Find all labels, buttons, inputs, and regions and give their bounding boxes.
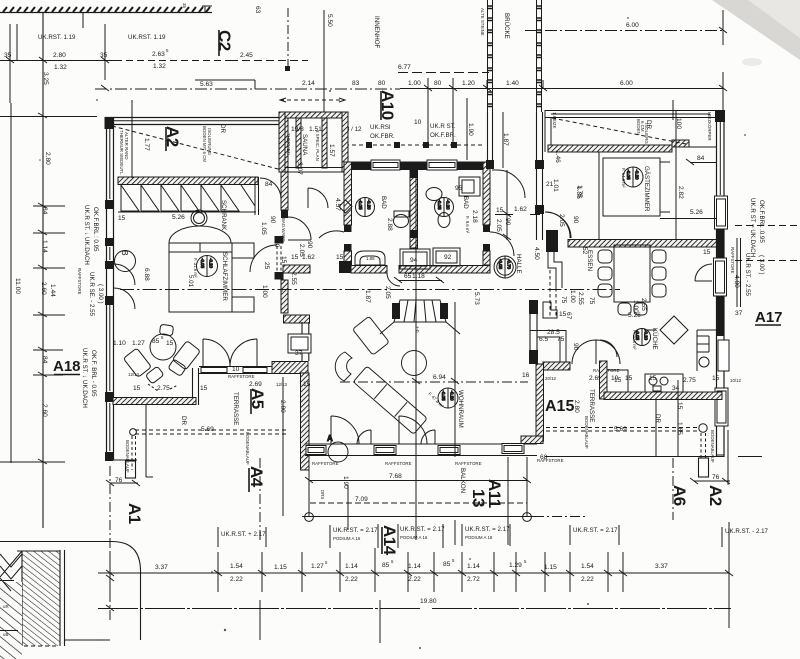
svg-text:13: 13	[469, 489, 488, 507]
svg-text:1.75: 1.75	[576, 185, 583, 198]
svg-text:5.69: 5.69	[614, 426, 627, 433]
svg-text:15: 15	[703, 249, 711, 256]
svg-text:76: 76	[115, 477, 123, 484]
svg-text:3.37: 3.37	[655, 563, 668, 570]
svg-text:84: 84	[41, 356, 48, 364]
svg-text:UK.R ST. ↓ UK.DACH: UK.R ST. ↓ UK.DACH	[83, 205, 90, 265]
svg-text:5.50: 5.50	[326, 14, 333, 27]
svg-text:BRÜCKE: BRÜCKE	[503, 13, 510, 39]
svg-text:OK.F.BRL .0.95: OK.F.BRL .0.95	[758, 200, 765, 243]
svg-text:UK.RST. 1.19: UK.RST. 1.19	[38, 34, 76, 41]
svg-text:10: 10	[232, 366, 240, 373]
svg-text:DR: DR	[654, 414, 661, 423]
svg-text:95: 95	[455, 185, 463, 192]
svg-text:4.57: 4.57	[334, 198, 341, 211]
svg-text:1.14: 1.14	[408, 563, 421, 570]
svg-text:90: 90	[269, 216, 276, 224]
svg-text:2.72: 2.72	[467, 576, 480, 583]
svg-text:RAFFSTORE: RAFFSTORE	[77, 268, 82, 295]
svg-text:2.05: 2.05	[298, 244, 305, 257]
svg-text:DR: DR	[219, 124, 226, 133]
svg-text:10/12: 10/12	[730, 378, 742, 383]
svg-text:5.69: 5.69	[201, 426, 214, 433]
svg-text:90: 90	[306, 241, 313, 249]
svg-text:2.18: 2.18	[471, 210, 478, 223]
svg-text:75: 75	[588, 297, 595, 305]
svg-text:19.80: 19.80	[420, 598, 437, 605]
svg-text:15: 15	[614, 377, 622, 384]
svg-text:84: 84	[41, 207, 48, 215]
svg-text:PODIUM A 16: PODIUM A 16	[400, 535, 428, 540]
svg-text:F. 9.6 m²: F. 9.6 m²	[465, 216, 470, 234]
svg-text:10: 10	[273, 240, 280, 248]
svg-text:6.00: 6.00	[620, 80, 633, 87]
svg-text:37: 37	[295, 350, 303, 357]
svg-text:1.HEIZK: 1.HEIZK	[552, 112, 557, 129]
svg-text:1.32: 1.32	[54, 64, 67, 71]
svg-text:2.82: 2.82	[677, 186, 684, 199]
svg-text:uB: uB	[3, 632, 8, 637]
svg-text:-0.20: -0.20	[209, 258, 214, 269]
svg-text:1.57: 1.57	[328, 144, 335, 157]
svg-text:1.54: 1.54	[581, 563, 594, 570]
svg-text:uR: uR	[3, 604, 9, 609]
svg-text:2.69: 2.69	[249, 381, 262, 388]
svg-text:-0.05: -0.05	[200, 258, 205, 269]
svg-text:1.29: 1.29	[509, 562, 522, 569]
svg-text:76: 76	[712, 474, 720, 481]
svg-text:THERMUR SIEDEUTL: THERMUR SIEDEUTL	[119, 130, 124, 175]
svg-text:A2: A2	[706, 485, 725, 506]
svg-text:2.60: 2.60	[40, 282, 47, 295]
svg-text:1.20: 1.20	[462, 80, 475, 87]
svg-text:1.14: 1.14	[467, 563, 480, 570]
svg-text:75: 75	[557, 336, 565, 343]
svg-text:85: 85	[443, 561, 451, 568]
svg-text:1.27: 1.27	[132, 340, 145, 347]
svg-text:BODEN MIT 6 CM: BODEN MIT 6 CM	[202, 126, 207, 162]
svg-text:3.37: 3.37	[155, 564, 168, 571]
svg-text:2.45: 2.45	[240, 52, 253, 59]
svg-text:25: 25	[263, 262, 270, 270]
svg-text:SCHLAFZIMMER: SCHLAFZIMMER	[221, 252, 228, 301]
svg-text:3.25: 3.25	[42, 72, 49, 85]
svg-text:2.55: 2.55	[290, 272, 297, 285]
svg-text:90: 90	[504, 218, 511, 226]
svg-text:15: 15	[303, 381, 311, 388]
svg-text:90: 90	[572, 216, 579, 224]
svg-text:UK.R ST.: UK.R ST.	[430, 123, 456, 130]
svg-text:35: 35	[100, 52, 108, 59]
svg-text:-0.05: -0.05	[635, 330, 640, 341]
svg-text:2.05: 2.05	[384, 286, 391, 299]
svg-text:RAFFSTORE: RAFFSTORE	[228, 374, 255, 379]
svg-text:15: 15	[200, 385, 208, 392]
svg-text:1.00: 1.00	[632, 300, 639, 313]
svg-text:12/13: 12/13	[128, 372, 140, 377]
svg-text:6.00: 6.00	[626, 22, 639, 29]
svg-text:28.5: 28.5	[547, 329, 560, 336]
svg-text:RAFFSTORE: RAFFSTORE	[385, 461, 412, 466]
svg-text:37: 37	[735, 310, 743, 317]
svg-text:7.68: 7.68	[389, 473, 402, 480]
svg-text:68: 68	[540, 454, 548, 461]
svg-text:90: 90	[572, 343, 579, 351]
svg-text:A1: A1	[125, 503, 144, 524]
svg-text:-0.05: -0.05	[437, 200, 442, 211]
svg-text:84: 84	[697, 155, 705, 162]
svg-text:15: 15	[625, 375, 633, 382]
svg-text:1.14: 1.14	[41, 240, 48, 253]
svg-text:BODENABLAUF: BODENABLAUF	[245, 432, 250, 465]
svg-text:15: 15	[133, 385, 141, 392]
svg-text:UK.R.ST. = 2.17: UK.R.ST. = 2.17	[400, 526, 445, 533]
svg-text:94: 94	[410, 257, 418, 264]
svg-text:A15: A15	[545, 398, 574, 415]
svg-text:1.05: 1.05	[260, 222, 267, 235]
svg-text:15: 15	[496, 207, 504, 214]
svg-text:DR: DR	[180, 416, 187, 425]
svg-text:-0.20: -0.20	[635, 170, 640, 181]
svg-text:INNENHOF: INNENHOF	[373, 16, 380, 49]
svg-text:A17: A17	[755, 309, 783, 326]
svg-text:3 SPEIC. PLAN: 3 SPEIC. PLAN	[315, 130, 320, 161]
svg-text:5.63: 5.63	[200, 81, 213, 88]
svg-text:1.32: 1.32	[153, 63, 166, 70]
svg-text:2.22: 2.22	[408, 576, 421, 583]
svg-text:UK.R SE. - 2.55: UK.R SE. - 2.55	[88, 272, 95, 317]
svg-text:65: 65	[404, 273, 412, 280]
svg-text:15: 15	[280, 256, 287, 264]
svg-text:UK.RST. 1.19: UK.RST. 1.19	[128, 34, 166, 41]
svg-text:2.60: 2.60	[41, 404, 48, 417]
svg-text:-0.05: -0.05	[441, 391, 446, 402]
svg-text:SCHRANK: SCHRANK	[220, 200, 227, 231]
svg-text:75: 75	[560, 296, 567, 304]
svg-text:UK.R.ST. = 2.17: UK.R.ST. = 2.17	[465, 526, 510, 533]
svg-text:BODENABLAUF: BODENABLAUF	[710, 430, 715, 463]
svg-text:80: 80	[434, 80, 442, 87]
svg-text:1.85: 1.85	[676, 422, 683, 435]
svg-text:15: 15	[118, 215, 126, 222]
svg-text:-0.20: -0.20	[644, 330, 649, 341]
svg-text:2.80: 2.80	[573, 400, 580, 413]
svg-text:1.27: 1.27	[311, 563, 324, 570]
svg-text:4.80: 4.80	[733, 275, 740, 288]
svg-text:-0.70: -0.70	[507, 259, 512, 270]
svg-text:1.88: 1.88	[366, 256, 375, 261]
svg-text:UK.R.ST. = 2.17: UK.R.ST. = 2.17	[573, 527, 618, 534]
svg-text:1.00: 1.00	[408, 80, 421, 87]
svg-text:2.22: 2.22	[345, 576, 358, 583]
svg-text:83: 83	[352, 80, 360, 87]
svg-text:15: 15	[712, 375, 720, 382]
svg-text:52: 52	[581, 247, 588, 255]
svg-text:100: 100	[675, 118, 682, 129]
svg-text:UK.R ST = UK.DACH: UK.R ST = UK.DACH	[749, 198, 756, 257]
svg-text:1.14: 1.14	[345, 563, 358, 570]
svg-text:RAFFSTORE: RAFFSTORE	[730, 247, 735, 274]
svg-text:-0.05: -0.05	[626, 170, 631, 181]
svg-text:1.54: 1.54	[230, 563, 243, 570]
svg-text:-0.20: -0.20	[450, 391, 455, 402]
svg-text:UK.RSI: UK.RSI	[370, 124, 391, 131]
svg-text:1.10: 1.10	[113, 340, 126, 347]
svg-text:1.40: 1.40	[506, 80, 519, 87]
svg-text:OK.F. BRL - 0.95: OK.F. BRL - 0.95	[90, 350, 97, 397]
svg-text:-0.20: -0.20	[367, 200, 372, 211]
svg-text:OK.F.BRL : 0.95: OK.F.BRL : 0.95	[92, 207, 99, 252]
svg-text:-0.05: -0.05	[358, 200, 363, 211]
svg-text:5.26: 5.26	[690, 209, 703, 216]
svg-text:ISOLIERG: ISOLIERG	[644, 123, 649, 144]
svg-text:2.80: 2.80	[53, 52, 66, 59]
svg-text:GÄSTEZIMMER: GÄSTEZIMMER	[643, 166, 650, 212]
svg-text:85: 85	[152, 338, 160, 345]
svg-text:11.00: 11.00	[14, 278, 21, 294]
svg-text:2.75: 2.75	[157, 385, 170, 392]
svg-text:6.94: 6.94	[433, 374, 446, 381]
svg-text:UK.R.ST. - 2.17: UK.R.ST. - 2.17	[725, 528, 769, 535]
svg-text:2.80: 2.80	[44, 152, 51, 165]
svg-text:C2: C2	[215, 30, 234, 51]
svg-text:1.00: 1.00	[569, 290, 576, 303]
svg-text:15: 15	[649, 375, 657, 382]
svg-text:BODENABLAUF: BODENABLAUF	[125, 440, 130, 473]
svg-text:16: 16	[522, 372, 530, 379]
svg-text:3.07: 3.07	[296, 162, 303, 175]
svg-text:UK.R ST. ↓ UK.DACH: UK.R ST. ↓ UK.DACH	[81, 348, 88, 408]
svg-text:A18: A18	[53, 358, 81, 375]
svg-text:1.77: 1.77	[143, 138, 150, 151]
svg-text:67: 67	[565, 312, 572, 320]
svg-text:PODIUM A 16: PODIUM A 16	[333, 536, 361, 541]
svg-text:1.90: 1.90	[467, 123, 474, 136]
svg-text:-0.05: -0.05	[498, 259, 503, 270]
svg-text:1.18: 1.18	[412, 273, 425, 280]
svg-text:HEIZKÖRPER: HEIZKÖRPER	[707, 112, 712, 141]
svg-text:35: 35	[182, 3, 187, 8]
svg-text:RAFFSTORE: RAFFSTORE	[312, 461, 339, 466]
svg-text:84: 84	[265, 181, 273, 188]
svg-text:1.00: 1.00	[261, 285, 268, 298]
svg-text:10: 10	[414, 119, 422, 126]
svg-text:A: A	[327, 434, 333, 443]
svg-text:21: 21	[546, 181, 554, 188]
svg-text:UK.R.ST. + 2.17: UK.R.ST. + 2.17	[221, 531, 266, 538]
svg-text:A14: A14	[380, 525, 399, 556]
svg-text:1.46: 1.46	[554, 150, 561, 163]
svg-text:A6: A6	[670, 485, 689, 506]
svg-text:1.51: 1.51	[309, 126, 322, 133]
svg-text:20/12: 20/12	[545, 376, 557, 381]
svg-text:2.55: 2.55	[577, 292, 584, 305]
svg-text:BODENABLAUF: BODENABLAUF	[584, 416, 589, 449]
svg-text:15: 15	[336, 254, 344, 261]
svg-text:ALTE STEINE: ALTE STEINE	[480, 8, 485, 36]
svg-text:34: 34	[672, 385, 680, 392]
svg-text:RAFFSTORE: RAFFSTORE	[455, 461, 482, 466]
svg-text:80: 80	[378, 80, 386, 87]
svg-text:15: 15	[166, 340, 174, 347]
svg-text:2.22: 2.22	[581, 576, 594, 583]
svg-text:ALTER RAND: ALTER RAND	[124, 132, 129, 160]
svg-text:KÜCHE: KÜCHE	[651, 328, 658, 350]
svg-text:2.55: 2.55	[640, 298, 647, 311]
svg-text:2.63: 2.63	[152, 51, 165, 58]
svg-text:TERRASSE: TERRASSE	[232, 392, 239, 425]
svg-text:BAD: BAD	[380, 196, 387, 209]
svg-text:1.15: 1.15	[544, 564, 557, 571]
svg-text:2.05: 2.05	[495, 219, 502, 232]
svg-text:OK.F.BR.: OK.F.BR.	[430, 132, 456, 139]
svg-text:12/13: 12/13	[276, 382, 288, 387]
svg-text:15: 15	[291, 254, 299, 261]
svg-text:1.15: 1.15	[274, 564, 287, 571]
svg-text:2.14: 2.14	[302, 80, 315, 87]
svg-text:( 3.00 ): ( 3.00 )	[758, 255, 765, 275]
svg-text:5.26: 5.26	[172, 214, 185, 221]
svg-text:85: 85	[382, 562, 390, 569]
svg-text:6.77: 6.77	[398, 64, 411, 71]
svg-text:5.01: 5.01	[187, 275, 194, 288]
svg-text:DRS: DRS	[320, 490, 325, 499]
svg-text:1.87: 1.87	[502, 133, 509, 146]
svg-text:2.22: 2.22	[230, 576, 243, 583]
svg-text:UK.R ST. - 2.55: UK.R ST. - 2.55	[744, 253, 751, 297]
svg-text:15: 15	[676, 402, 683, 410]
svg-text:BAD: BAD	[462, 196, 469, 209]
svg-text:SAUNA: SAUNA	[301, 134, 308, 156]
svg-text:1.62: 1.62	[514, 206, 527, 213]
svg-text:15: 15	[536, 207, 544, 214]
svg-text:4.50: 4.50	[533, 247, 540, 260]
svg-text:6.5: 6.5	[539, 336, 548, 343]
svg-text:2.88: 2.88	[386, 218, 393, 231]
svg-text:UK.R.ST. = 2.17: UK.R.ST. = 2.17	[333, 527, 378, 534]
svg-text:7.09: 7.09	[355, 496, 368, 503]
svg-text:OK.FBR.: OK.FBR.	[370, 133, 395, 140]
svg-text:PODIUM A 18: PODIUM A 18	[465, 535, 493, 540]
svg-text:63: 63	[254, 6, 261, 14]
svg-text:THERMEN: THERMEN	[286, 133, 291, 155]
svg-text:19/8: 19/8	[291, 126, 304, 133]
svg-text:1.87: 1.87	[364, 290, 371, 303]
svg-text:BALKON: BALKON	[459, 468, 466, 493]
svg-text:6.88: 6.88	[143, 268, 150, 281]
svg-text:2.75: 2.75	[683, 377, 696, 384]
svg-text:A4: A4	[247, 466, 266, 488]
svg-text:BAD.WAND: BAD.WAND	[281, 218, 286, 242]
svg-text:35: 35	[4, 52, 12, 59]
svg-text:1.44: 1.44	[49, 284, 56, 297]
svg-text:( 3.00 ): ( 3.00 )	[97, 284, 104, 304]
svg-text:-0.20: -0.20	[446, 200, 451, 211]
svg-text:B: B	[120, 250, 130, 256]
svg-text:HALLE: HALLE	[515, 254, 522, 274]
svg-text:5.73: 5.73	[473, 292, 480, 305]
svg-text:92: 92	[444, 254, 452, 261]
